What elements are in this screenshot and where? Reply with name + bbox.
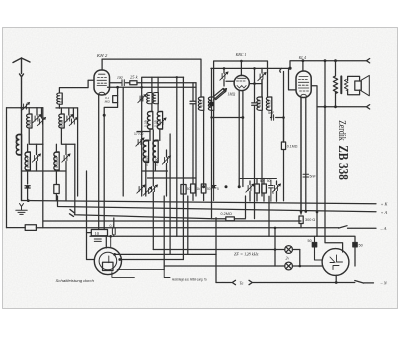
wire lamp left link xyxy=(274,228,276,250)
svg-text:25 k: 25 k xyxy=(130,75,139,80)
capacitor C small at column 72 xyxy=(70,210,75,217)
wire line A anode bus to IFT-B xyxy=(102,59,201,97)
speaker body xyxy=(348,76,360,94)
wire row join xyxy=(22,170,67,172)
wire L5 column xyxy=(55,144,57,184)
node lamp right junction xyxy=(299,265,302,268)
inductor IFT1 coil b xyxy=(153,93,158,104)
ground xyxy=(16,204,27,215)
wire lamp right link xyxy=(299,250,301,267)
wire KBC1 bottom drops xyxy=(239,90,245,217)
node on y68 rail a xyxy=(253,67,256,70)
resistor row box e xyxy=(255,184,260,193)
svg-text:0.05: 0.05 xyxy=(258,100,262,107)
capacitor trimmer T6 xyxy=(62,153,71,162)
node socket pin b xyxy=(118,258,121,261)
node heater rail top xyxy=(324,59,327,62)
node socket feed junction xyxy=(109,235,112,238)
wire L4 stubs xyxy=(61,108,75,144)
resistor 10 box heater xyxy=(91,230,107,236)
wire heater rail vertical x325 xyxy=(325,61,343,252)
wire y68 line xyxy=(211,67,282,69)
tube KL4 electrodes xyxy=(298,77,309,92)
capacitor padder C5 xyxy=(25,186,30,201)
tube KBC1 xyxy=(234,75,249,90)
capacitor trimmer T2 xyxy=(37,117,46,126)
labels bus terminals xyxy=(380,202,389,286)
wire grid bias line xyxy=(75,207,214,219)
resistor speaker shunt xyxy=(333,61,337,107)
wire lamp feed line xyxy=(153,249,299,251)
svg-text:5: 5 xyxy=(217,187,219,191)
node antenna/line junction xyxy=(20,107,22,109)
wire column x77.6 xyxy=(77,108,79,196)
bus +A xyxy=(43,196,376,221)
wire KL4 cathode drops xyxy=(301,98,306,215)
capacitor trimmer row under KBC xyxy=(246,183,255,192)
wire lamp return line xyxy=(164,265,322,267)
capacitor trimmer row h xyxy=(272,183,281,192)
svg-text:+ A: + A xyxy=(381,210,388,215)
wire routing nest horizontals xyxy=(90,235,317,237)
capacitor 50 left xyxy=(312,243,316,247)
wire socket feeds xyxy=(110,236,112,247)
wire coupling 5nF xyxy=(271,118,284,143)
svg-text:ZF = 128 kHz: ZF = 128 kHz xyxy=(234,252,259,257)
wire L3 bottom stub xyxy=(58,104,60,108)
label coil values left cluster xyxy=(15,98,64,168)
node KBC1 pin dot xyxy=(238,185,241,188)
inductor IFT2 coil b xyxy=(266,97,271,110)
svg-text:ZB 338: ZB 338 xyxy=(335,145,350,180)
wire T9 column xyxy=(166,150,168,196)
svg-text:Zerdik: Zerdik xyxy=(336,120,347,141)
wire line C xyxy=(290,61,367,68)
node on y68 rail b xyxy=(223,67,226,70)
wire KH2 screen line with cap xyxy=(110,82,197,84)
tube socket inner circle xyxy=(99,252,117,270)
wire KL4 right side xyxy=(311,86,317,237)
tube KL4 envelope xyxy=(296,71,311,98)
IFT1 coils pair xyxy=(147,93,152,104)
capacitor trimmer TB1 xyxy=(220,71,229,80)
svg-text:– A: – A xyxy=(380,226,387,231)
svg-text:– N: – N xyxy=(380,281,388,286)
node cathode dot xyxy=(116,86,119,89)
inductor osc coil b xyxy=(153,141,158,163)
lamp L2 cross xyxy=(286,263,291,268)
wire socket line a xyxy=(115,253,216,255)
connector TA xyxy=(232,280,252,284)
capacitor trimmer row180 b xyxy=(143,186,152,195)
capacitor row g xyxy=(269,180,274,201)
wire KH2 heater drops xyxy=(99,95,105,230)
wire row box e stubs xyxy=(256,179,258,202)
grid hook KL4 xyxy=(280,68,290,72)
node pin dots row xyxy=(202,185,205,188)
node rectifier at -N xyxy=(335,281,338,284)
capacitor trimmer T1 xyxy=(33,114,42,123)
text bottom notes xyxy=(56,278,207,283)
svg-text:0.0005: 0.0005 xyxy=(15,135,19,146)
inductor IFT-B coil b xyxy=(208,97,213,110)
wire cathode bypass drop xyxy=(114,87,142,228)
capacitor trimmer T7 xyxy=(136,137,145,146)
node pin dot b xyxy=(212,185,215,188)
wire IFT1 middles xyxy=(150,104,160,141)
rectifier tube xyxy=(322,249,349,276)
wire grid return xyxy=(212,117,243,119)
speaker cone xyxy=(361,75,369,95)
transformer output primary bar xyxy=(340,76,342,93)
node padder junction xyxy=(26,185,29,188)
node on IFT1 rail xyxy=(176,76,178,78)
node speaker shunt bottom xyxy=(334,105,337,108)
node pin dot c xyxy=(225,185,228,188)
capacitor trimmer T3 xyxy=(32,153,41,162)
svg-text:0.5: 0.5 xyxy=(59,98,63,103)
wire L2 column xyxy=(27,144,29,184)
capacitor trimmer T9 xyxy=(162,155,171,164)
svg-text:50: 50 xyxy=(187,187,191,191)
tube KH2 heater arc xyxy=(98,92,105,95)
wire IFT1 top rail xyxy=(142,77,184,87)
wire KBC1 left/right xyxy=(226,81,262,83)
tube KBC1 inner xyxy=(237,78,247,88)
wire rail y178 xyxy=(148,177,197,179)
wire socket line b xyxy=(120,259,184,261)
oscillator coils xyxy=(143,141,148,163)
node dot at 141.7 xyxy=(140,86,143,89)
wire T4/T5 stubs xyxy=(69,108,74,118)
svg-text:0.05: 0.05 xyxy=(268,100,272,107)
wire lamp links xyxy=(274,250,276,267)
capacitor trimmer T4 xyxy=(65,114,74,123)
IFT1 lower coils xyxy=(147,112,152,130)
svg-text:50: 50 xyxy=(260,179,264,183)
wire KH2 cathode line xyxy=(108,86,197,88)
lamp L2 xyxy=(285,262,293,270)
wire long verticals middle xyxy=(87,77,177,254)
label KH2 xyxy=(96,53,139,104)
svg-text:Außenlage aus. Mittel-Lang, Ta: Außenlage aus. Mittel-Lang, Ta xyxy=(171,278,206,282)
tube KH2 envelope xyxy=(94,70,110,95)
connector tick top line xyxy=(367,59,370,63)
svg-text:0.05: 0.05 xyxy=(28,120,32,127)
inductor antenna series coil xyxy=(16,135,21,155)
bus -N / TA line xyxy=(216,281,374,284)
node lamp feed at -A xyxy=(274,227,277,230)
label KBC1 xyxy=(228,52,247,97)
wire IFT2 stubs xyxy=(262,80,272,196)
svg-text:1k: 1k xyxy=(197,187,201,191)
svg-text:300 Ω: 300 Ω xyxy=(305,218,315,222)
wire KL4 anode riser xyxy=(302,61,304,71)
wire column to bus xyxy=(74,144,76,207)
IFT-B coil pair xyxy=(198,97,203,110)
wire long vertical x196 xyxy=(195,83,197,196)
node x317 at +A xyxy=(316,211,319,214)
bus -A left segment with switch box xyxy=(7,226,377,229)
capacitor trimmer row180 c xyxy=(149,184,158,193)
resistor 0.2M box xyxy=(226,217,235,221)
node lamp left junction xyxy=(274,248,277,251)
svg-text:0.05: 0.05 xyxy=(154,120,158,127)
capacitor row c xyxy=(211,184,216,201)
tube socket bottom left xyxy=(94,247,121,274)
IFT2 coil pair xyxy=(257,97,262,110)
wire KL4 left grid xyxy=(289,70,297,90)
wire row rail right xyxy=(240,178,277,180)
svg-text:0.2MΩ: 0.2MΩ xyxy=(221,212,232,216)
wire heater box to socket xyxy=(105,236,107,248)
capacitor grid leak (filled) xyxy=(209,102,213,106)
svg-text:50: 50 xyxy=(207,187,211,191)
wire KH2 anode riser xyxy=(101,59,103,70)
capacitor 100 xyxy=(122,80,124,86)
svg-text:0.09: 0.09 xyxy=(144,120,148,127)
svg-text:50: 50 xyxy=(267,179,271,183)
capacitor below 10 box xyxy=(94,239,101,241)
wire long verticals x183 x188 xyxy=(183,77,187,259)
node KBC1 anode rail junction xyxy=(240,60,243,63)
wire row box b stub xyxy=(203,193,205,201)
node speaker shunt top xyxy=(334,59,337,62)
wire T1/T2 stubs xyxy=(37,108,42,118)
wire row box a stubs xyxy=(192,178,194,200)
wire rail segment y196 xyxy=(240,195,301,197)
wire 0.1 cap bottom stub xyxy=(113,235,115,237)
capacitor trimmer TB2 xyxy=(258,72,267,81)
svg-text:17700: 17700 xyxy=(134,132,144,136)
node junction on ground bus xyxy=(27,199,30,202)
svg-text:Schaltleistung durch: Schaltleistung durch xyxy=(56,279,95,283)
svg-text:0.0005: 0.0005 xyxy=(26,157,30,168)
resistor 1M diagonal potentiometer xyxy=(213,88,225,99)
wire T3 stubs xyxy=(36,144,38,171)
wire IFT-B stubs xyxy=(204,91,214,187)
capacitor trimmer IFT1 xyxy=(138,94,147,103)
wire grid leak column with cap xyxy=(211,68,213,218)
wire second rail xyxy=(56,107,78,109)
resistor 1M arrow xyxy=(214,89,227,100)
svg-text:50: 50 xyxy=(308,239,312,243)
svg-text:5nF: 5nF xyxy=(268,111,275,115)
inductor L4 0.05 xyxy=(59,114,64,128)
inductor L5 0.0016 xyxy=(54,152,59,170)
capacitor 5nF xyxy=(271,115,273,120)
wire osc stubs xyxy=(137,132,168,197)
node 5n drop at +A xyxy=(305,210,308,213)
label 1M17 xyxy=(134,120,159,166)
wire rectifier top feeds xyxy=(317,236,355,266)
inductor L2 0.0005 xyxy=(25,152,30,170)
node KBC1 diode junction xyxy=(253,82,256,85)
wire right drop of antenna input line xyxy=(42,108,44,228)
antenna xyxy=(13,58,30,201)
svg-text:0.05: 0.05 xyxy=(200,100,204,107)
svg-text:0.0810: 0.0810 xyxy=(145,156,149,166)
wire TB1 stubs xyxy=(223,68,225,86)
svg-text:0.1MΩ: 0.1MΩ xyxy=(287,145,298,149)
svg-text:MΩ: MΩ xyxy=(104,100,111,104)
svg-text:KL 4: KL 4 xyxy=(298,55,307,60)
resistor box row180 xyxy=(181,185,186,195)
resistor 300 ohm column xyxy=(300,98,302,215)
component row boxes under IFT-B xyxy=(191,184,196,193)
svg-text:50: 50 xyxy=(359,244,363,248)
wire R2 bottom stub xyxy=(55,194,57,201)
wire left rail down to switch line xyxy=(6,108,8,228)
tube KL4 heater arc xyxy=(300,94,307,97)
wire 50cap left column xyxy=(315,236,323,260)
capacitor 50 right xyxy=(353,243,357,247)
node dots socket lines xyxy=(113,253,116,256)
lamp L1 cross xyxy=(286,247,291,252)
switch S1 box M xyxy=(25,225,36,231)
speaker magnet pot xyxy=(355,81,361,90)
wire row box f stubs xyxy=(263,179,265,202)
svg-text:5nF: 5nF xyxy=(310,175,317,179)
bus +K xyxy=(22,201,377,204)
svg-text:KH 2: KH 2 xyxy=(96,53,108,58)
wire IFT1 tops xyxy=(152,77,158,92)
capacitor on KBC1 diode line xyxy=(252,68,258,218)
svg-text:0.1: 0.1 xyxy=(110,224,115,228)
node 300ohm at +A xyxy=(300,210,303,213)
svg-text:1MΩ: 1MΩ xyxy=(228,93,236,97)
svg-text:+ K: + K xyxy=(381,202,389,207)
wire TB2 stubs xyxy=(261,68,263,97)
tube socket key rect xyxy=(103,262,114,270)
wire L1 stubs xyxy=(29,108,43,145)
text Zerdik ZB 338 xyxy=(335,120,350,180)
capacitor trimmer T5 xyxy=(69,117,78,126)
wire rectifier bottom stub xyxy=(335,275,337,282)
wire long vertical x164 xyxy=(163,196,165,270)
resistor 0.1M box column xyxy=(281,142,285,150)
svg-text:10: 10 xyxy=(95,231,100,236)
inductor IFT1 lower coil b xyxy=(157,112,162,130)
resistor 0.2M xyxy=(213,218,245,220)
wire T6 column xyxy=(65,144,67,201)
wire antenna input line xyxy=(7,107,43,109)
capacitor 5n on +A drop xyxy=(303,174,309,177)
svg-text:100: 100 xyxy=(117,76,123,80)
wire 0.1M to cathode node xyxy=(104,103,117,116)
wire heater box left loop xyxy=(87,233,95,260)
node coupling junction xyxy=(282,116,285,119)
inductor L3 0.5 grid coil xyxy=(59,80,93,93)
lamp L1 xyxy=(285,246,293,254)
svg-text:0.090: 0.090 xyxy=(155,157,159,166)
wire line B KBC1 anode rail xyxy=(214,61,268,97)
svg-text:5: 5 xyxy=(272,191,274,195)
wire vertical x216 lower to Ta xyxy=(215,254,217,282)
node KL4 grid dot xyxy=(288,67,291,70)
wire row h stubs and lamp drop xyxy=(269,181,277,236)
capacitor antenna trimmer xyxy=(21,102,30,111)
capacitor trimmer T8 xyxy=(158,117,167,126)
resistor small box R2 xyxy=(54,185,59,194)
label 5nF, 0.1M xyxy=(200,100,298,149)
inductor L1 0.05 xyxy=(27,114,32,128)
wire row trimmer d stubs xyxy=(249,181,251,201)
capacitor on screen drop column xyxy=(190,83,196,178)
wire 300ohm to -A xyxy=(300,224,302,228)
svg-text:Ta: Ta xyxy=(240,280,244,285)
wire speaker bottom line xyxy=(317,105,370,109)
capacitor trimmer row180 a xyxy=(137,184,146,193)
node KL4 anode junction xyxy=(302,59,305,62)
svg-text:0.05: 0.05 xyxy=(60,120,64,127)
resistor 300ohm box xyxy=(299,216,303,224)
resistor 0.1M below cathode xyxy=(117,87,119,95)
node dot xyxy=(103,114,106,117)
svg-text:KBC 1: KBC 1 xyxy=(235,52,247,57)
svg-text:0.05: 0.05 xyxy=(210,100,214,107)
wire vertical x216 upper xyxy=(215,218,217,255)
resistor row box f xyxy=(262,184,267,193)
inductor L3 body xyxy=(57,93,62,104)
tube KH2 electrodes xyxy=(97,74,107,85)
rectifier inner electrodes xyxy=(330,255,343,270)
resistor 25k box xyxy=(130,81,137,85)
node heater rail at bottom line xyxy=(324,105,327,108)
resistor 0.1M box xyxy=(113,96,118,103)
capacitor 0.1 xyxy=(112,228,115,234)
svg-text:0.0016: 0.0016 xyxy=(55,157,59,168)
node grid return junction xyxy=(242,116,245,119)
wire KBC1 pin to rail xyxy=(238,179,240,187)
node grid leak junction xyxy=(210,116,212,118)
transformer secondary zigzag xyxy=(344,80,348,91)
svg-text:2v: 2v xyxy=(286,257,290,261)
resistor row box b xyxy=(201,184,206,193)
